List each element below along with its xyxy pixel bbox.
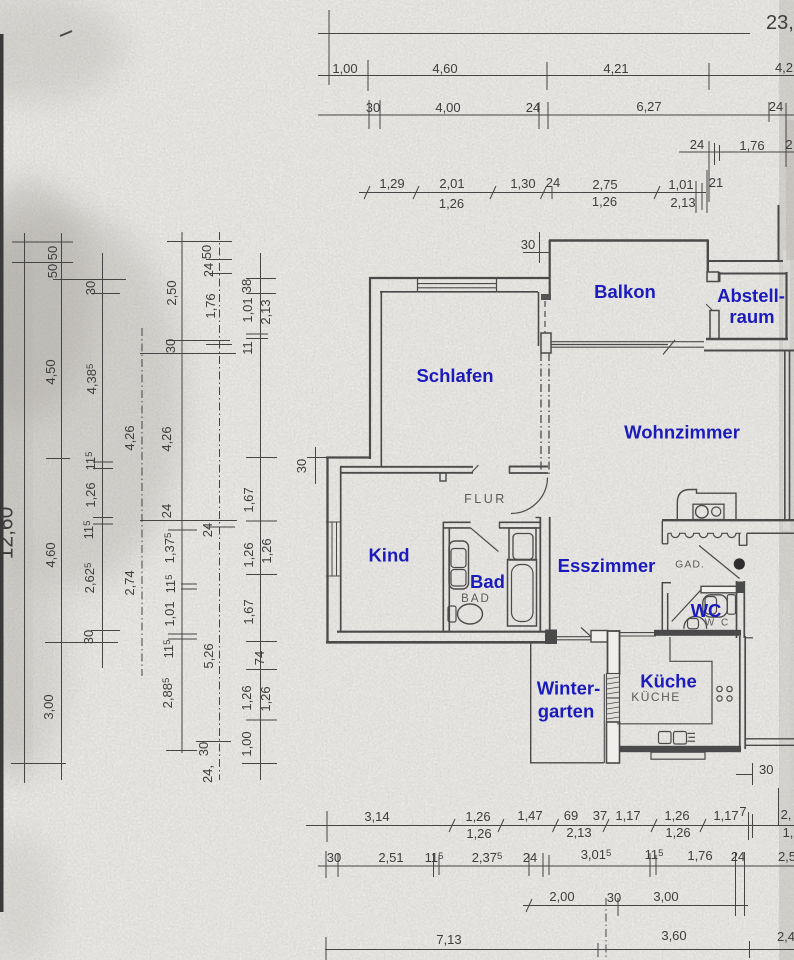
svg-text:30: 30 xyxy=(83,281,98,295)
svg-text:3,00: 3,00 xyxy=(653,889,678,904)
kueche sink bowls xyxy=(659,732,672,744)
balcony sliding door xyxy=(551,341,704,343)
outer step wall west xyxy=(326,456,371,458)
svg-text:1,26: 1,26 xyxy=(465,809,490,824)
dim line top row0 xyxy=(318,33,750,35)
svg-text:2,13: 2,13 xyxy=(670,195,695,210)
schlafen west wall xyxy=(369,277,371,459)
svg-text:2,74: 2,74 xyxy=(122,570,137,595)
svg-text:30: 30 xyxy=(81,630,96,644)
svg-text:2,13: 2,13 xyxy=(566,825,591,840)
kind east / bad west wall xyxy=(442,522,444,632)
svg-text:4,26: 4,26 xyxy=(122,425,137,450)
svg-text:1,26: 1,26 xyxy=(239,685,254,710)
svg-text:4,2: 4,2 xyxy=(775,60,793,75)
wohnzimmer east wall xyxy=(784,350,786,521)
svg-text:1,26: 1,26 xyxy=(258,686,273,711)
chain E vertical xyxy=(181,232,183,753)
svg-text:30: 30 xyxy=(521,237,535,252)
svg-text:2,51: 2,51 xyxy=(378,850,403,865)
svg-text:24: 24 xyxy=(546,175,560,190)
svg-text:24: 24 xyxy=(200,523,215,537)
wc west wall xyxy=(661,582,663,632)
svg-text:3,00: 3,00 xyxy=(41,694,56,719)
schlafen north wall inner xyxy=(380,291,538,293)
svg-text:24,: 24, xyxy=(200,765,215,783)
svg-text:Abstell-: Abstell- xyxy=(717,285,785,306)
svg-text:6,27: 6,27 xyxy=(636,99,661,114)
svg-text:1,01: 1,01 xyxy=(240,297,255,322)
svg-text:1,00: 1,00 xyxy=(239,731,254,756)
scan band right edge xyxy=(779,0,794,960)
svg-text:23,: 23, xyxy=(766,12,794,34)
row1 labels xyxy=(332,60,793,76)
svg-text:30: 30 xyxy=(759,762,773,777)
wohnzimmer north wall east part xyxy=(704,350,794,352)
ticks E/F region xyxy=(167,241,232,243)
svg-text:24: 24 xyxy=(526,100,540,115)
chain B ticks xyxy=(46,458,70,460)
chain C vertical xyxy=(102,253,104,668)
svg-text:11: 11 xyxy=(240,341,255,355)
svg-text:Bad: Bad xyxy=(470,571,505,592)
svg-text:4,60: 4,60 xyxy=(43,542,58,567)
svg-text:24: 24 xyxy=(690,137,704,152)
kueche west window segments xyxy=(607,674,620,699)
svg-text:1,67: 1,67 xyxy=(241,599,256,624)
svg-text:5,26: 5,26 xyxy=(201,643,216,668)
bad east wall (esszimmer west) xyxy=(539,517,541,632)
kueche south window sill xyxy=(651,752,705,759)
row2 ticks xyxy=(368,100,370,129)
wall outer right stub above abstellraum xyxy=(778,205,780,260)
svg-text:1,76: 1,76 xyxy=(203,293,218,318)
extension dash right x778 xyxy=(778,788,780,825)
svg-text:1,01: 1,01 xyxy=(162,601,177,626)
svg-text:Küche: Küche xyxy=(640,671,697,692)
wc south wall thick xyxy=(654,630,741,636)
bad north wall xyxy=(443,521,471,523)
kueche north threshold xyxy=(620,632,656,634)
dim line bottom rowD xyxy=(325,949,794,951)
bad toilet xyxy=(448,606,456,622)
svg-text:4,26: 4,26 xyxy=(159,426,174,451)
dim line top row1 xyxy=(318,75,794,77)
svg-text:4,60: 4,60 xyxy=(432,61,457,76)
svg-text:2,: 2, xyxy=(781,807,792,822)
wc east wall xyxy=(736,581,738,638)
wall outer north of abstellraum xyxy=(708,260,783,262)
dim line right row3 (24/1,76/2) xyxy=(679,151,794,153)
svg-text:7: 7 xyxy=(739,804,746,819)
svg-text:GAD.: GAD. xyxy=(675,559,705,571)
chain F dash-dot vertical xyxy=(219,232,221,780)
dim 30 bottom right of kitchen xyxy=(736,774,753,776)
svg-text:BAD: BAD xyxy=(461,593,491,605)
svg-text:37: 37 xyxy=(593,808,607,823)
svg-text:1,26: 1,26 xyxy=(466,826,491,841)
scan shading left blobs xyxy=(0,210,185,590)
svg-text:1,17: 1,17 xyxy=(713,808,738,823)
wall step balcony se xyxy=(707,272,719,282)
chain A vertical (total 12,60) xyxy=(24,233,26,783)
bathtub xyxy=(508,560,537,627)
svg-text:1,26: 1,26 xyxy=(259,538,274,563)
wc toilet xyxy=(684,616,707,628)
svg-text:24: 24 xyxy=(769,99,783,114)
kueche counter xyxy=(617,637,712,724)
svg-text:50: 50 xyxy=(45,264,60,278)
scan corner dash top-left xyxy=(60,31,72,36)
chain D dash-dot vertical xyxy=(141,328,143,676)
wc diagonal screen xyxy=(672,590,701,622)
chain G vertical xyxy=(260,253,262,780)
svg-text:2,75: 2,75 xyxy=(592,177,617,192)
abstellraum north wall xyxy=(719,273,787,275)
svg-text:W C: W C xyxy=(705,618,730,629)
svg-text:2,00: 2,00 xyxy=(549,889,574,904)
rotated labels left block xyxy=(0,245,274,783)
kind west window xyxy=(331,522,333,576)
svg-text:74: 74 xyxy=(252,651,267,665)
svg-text:1,: 1, xyxy=(783,825,794,840)
schlafen north wall outer xyxy=(369,277,550,279)
svg-text:4,50: 4,50 xyxy=(43,359,58,384)
dim line top row4 xyxy=(359,192,706,194)
kind+bad south wall xyxy=(337,631,557,633)
wall balcony east xyxy=(707,240,709,273)
svg-text:Esszimmer: Esszimmer xyxy=(558,555,656,576)
svg-text:1,30: 1,30 xyxy=(510,176,535,191)
svg-text:Wohnzimmer: Wohnzimmer xyxy=(624,422,740,443)
terrace line right xyxy=(747,532,794,534)
svg-text:30: 30 xyxy=(163,339,178,353)
svg-text:FLUR: FLUR xyxy=(464,492,507,506)
wc basin unit xyxy=(703,595,728,617)
svg-text:30: 30 xyxy=(366,100,380,115)
door jamb block esszimmer se xyxy=(591,631,608,643)
dim line top row2 xyxy=(318,114,794,116)
ticks across A/B xyxy=(12,241,73,243)
svg-text:69: 69 xyxy=(564,808,578,823)
wc north wall xyxy=(701,586,737,593)
kueche east wall xyxy=(739,636,741,749)
chain B vertical xyxy=(61,233,63,780)
svg-text:2: 2 xyxy=(785,137,792,152)
svg-text:Balkon: Balkon xyxy=(594,281,656,302)
tick across B/C xyxy=(53,279,126,281)
svg-text:24: 24 xyxy=(159,504,174,518)
svg-text:1,29: 1,29 xyxy=(379,176,404,191)
svg-text:1,76: 1,76 xyxy=(739,138,764,153)
svg-text:raum: raum xyxy=(729,306,774,327)
kueche drainer xyxy=(688,732,696,734)
svg-text:30: 30 xyxy=(196,742,211,756)
flur-wohnzimmer door arc xyxy=(511,478,548,514)
svg-text:Kind: Kind xyxy=(368,545,409,566)
svg-text:KÜCHE: KÜCHE xyxy=(631,690,681,704)
wintergarten west wall xyxy=(530,642,532,764)
kind west wall xyxy=(326,457,328,643)
abstellraum west stub + door jamb xyxy=(719,272,721,282)
kachelofen xyxy=(677,490,736,520)
svg-text:Winter-: Winter- xyxy=(537,678,601,699)
svg-text:38: 38 xyxy=(239,279,254,293)
wintergarten east inner line xyxy=(603,674,605,763)
dim line bottom rowB xyxy=(318,865,794,867)
divider dash-dot schlafen/wohnzimmer xyxy=(540,353,542,477)
svg-text:50: 50 xyxy=(45,246,60,260)
svg-text:1,26: 1,26 xyxy=(241,542,256,567)
door swing wohnzimmer to hall xyxy=(699,546,740,579)
dim 30 at balcony nw corner xyxy=(539,232,541,263)
row4 slanted ticks xyxy=(364,186,370,199)
svg-text:3,60: 3,60 xyxy=(661,928,686,943)
svg-text:2,5: 2,5 xyxy=(778,849,794,864)
svg-text:2,01: 2,01 xyxy=(439,176,464,191)
svg-text:30: 30 xyxy=(607,890,621,905)
radiator band below wohnzimmer wall xyxy=(661,521,663,544)
svg-text:3,14: 3,14 xyxy=(364,809,389,824)
svg-text:4,21: 4,21 xyxy=(603,61,628,76)
svg-text:21: 21 xyxy=(709,175,723,190)
svg-text:1,76: 1,76 xyxy=(687,848,712,863)
svg-text:4,00: 4,00 xyxy=(435,100,460,115)
abstellraum south wall xyxy=(706,338,788,340)
svg-text:garten: garten xyxy=(538,701,595,722)
svg-text:50: 50 xyxy=(199,245,214,259)
svg-text:2,13: 2,13 xyxy=(258,299,273,324)
flur north wall (schlafen south) xyxy=(340,466,473,468)
abstellraum east wall xyxy=(785,272,787,340)
pillar kueche west upper xyxy=(608,631,620,674)
flur door stub to kind xyxy=(440,473,446,481)
svg-text:1,67: 1,67 xyxy=(241,487,256,512)
door knob dot xyxy=(734,558,745,569)
svg-text:1,26: 1,26 xyxy=(664,808,689,823)
wc cistern xyxy=(727,595,735,615)
row1 ticks xyxy=(367,60,369,91)
row4 labels xyxy=(379,175,723,211)
bad closet top xyxy=(509,528,536,560)
dim line bottom rowC xyxy=(523,905,748,907)
svg-text:1,00: 1,00 xyxy=(332,61,357,76)
svg-text:30: 30 xyxy=(327,850,341,865)
svg-text:1,26: 1,26 xyxy=(665,825,690,840)
svg-text:1,47: 1,47 xyxy=(517,808,542,823)
kueche south wall xyxy=(619,746,741,752)
wall block at balcony door west xyxy=(541,294,551,300)
bad washbasin xyxy=(449,541,469,589)
terrace double line bottom right xyxy=(745,738,794,740)
svg-text:1,26: 1,26 xyxy=(592,194,617,209)
wall balcony north xyxy=(549,239,708,241)
chain G ticks xyxy=(246,278,276,280)
schlafen east wall top xyxy=(549,240,551,300)
dim line bottom rowA xyxy=(306,825,794,827)
row2 labels xyxy=(366,99,783,115)
dim extension tick left x329 xyxy=(328,10,330,85)
kueche stove rings xyxy=(717,686,722,691)
svg-text:1,01: 1,01 xyxy=(668,177,693,192)
svg-text:7,13: 7,13 xyxy=(436,932,461,947)
svg-text:24: 24 xyxy=(731,849,745,864)
wintergarten south wall xyxy=(530,762,604,764)
svg-text:2,50: 2,50 xyxy=(164,280,179,305)
svg-text:1,26: 1,26 xyxy=(439,196,464,211)
svg-text:30: 30 xyxy=(294,459,309,473)
svg-text:Schlafen: Schlafen xyxy=(416,365,493,386)
chain C ticks xyxy=(91,293,120,295)
scan border left xyxy=(0,34,4,912)
svg-text:24: 24 xyxy=(523,850,537,865)
schlafen north window xyxy=(417,278,419,292)
svg-text:1,17: 1,17 xyxy=(615,808,640,823)
dim 30 at plan west (step) xyxy=(315,447,317,484)
svg-text:1,26: 1,26 xyxy=(83,482,98,507)
svg-text:24: 24 xyxy=(201,263,216,277)
esszimmer-wintergarten threshold xyxy=(557,636,591,638)
wohnzimmer south wall xyxy=(662,519,794,521)
svg-text:2,4: 2,4 xyxy=(777,929,794,944)
